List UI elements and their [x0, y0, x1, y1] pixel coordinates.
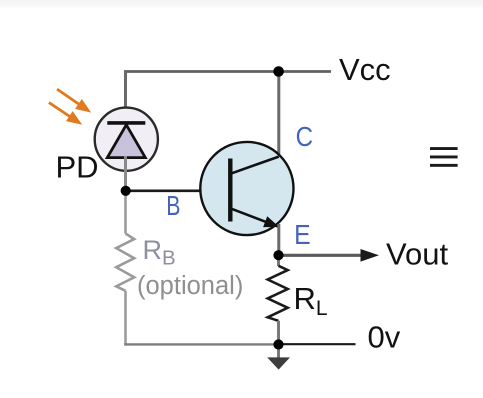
wire collector vertical — [277, 72, 280, 159]
wire below PD to base node — [124, 156, 127, 191]
wire emitter node to RL — [277, 255, 280, 266]
svg-text:0v: 0v — [368, 320, 401, 355]
ground symbol — [267, 345, 290, 370]
wire RB upper lead (gray optional branch) — [124, 191, 127, 234]
transistor Q1 — [200, 142, 293, 235]
wire bottom rail (gray, left part) — [124, 343, 278, 345]
svg-text:Vcc: Vcc — [339, 52, 391, 87]
wire Vout lead — [279, 254, 362, 257]
photodiode PD — [95, 108, 158, 171]
resistor RL — [268, 266, 288, 321]
node base junction dot — [121, 186, 131, 196]
node emitter junction dot — [273, 250, 283, 260]
wire emitter vertical — [277, 224, 280, 256]
menu icon (three bars) — [430, 147, 458, 167]
node ground junction dot — [273, 339, 283, 349]
svg-text:E: E — [294, 219, 311, 250]
svg-text:(optional): (optional) — [137, 272, 243, 300]
junction dot at Vcc rail — [273, 66, 284, 77]
wire base (node to transistor) — [126, 190, 231, 193]
wire left vertical (top corner down into PD) — [124, 70, 127, 122]
wire top rail Vcc — [124, 70, 331, 73]
resistor RB — [116, 234, 134, 291]
svg-text:PD: PD — [56, 150, 99, 185]
light arrow 1 (upper) — [54, 84, 95, 117]
wire RL to ground rail — [277, 321, 280, 345]
svg-text:Vout: Vout — [386, 236, 448, 271]
svg-text:RB: RB — [143, 235, 176, 269]
arrowhead Vout — [361, 249, 380, 262]
svg-text:RL: RL — [294, 281, 328, 320]
light arrow 2 (lower) — [46, 98, 86, 130]
svg-text:C: C — [296, 121, 313, 152]
wire RB lower lead — [124, 291, 127, 346]
svg-text:B: B — [166, 190, 180, 221]
wire 0v lead (black, right part) — [279, 343, 356, 345]
